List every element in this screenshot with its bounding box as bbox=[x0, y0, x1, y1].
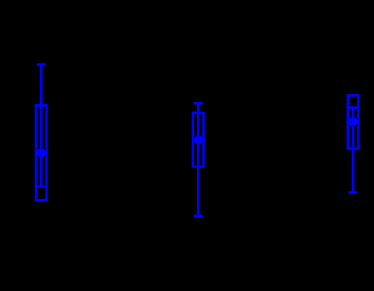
candlestick 1 box bbox=[36, 105, 47, 200]
candlestick 2 top whisker cap bbox=[194, 102, 203, 105]
candlestick 2 whisker line bbox=[197, 103, 200, 216]
candlestick 3 bottom whisker cap bbox=[349, 191, 358, 194]
candlestick 2 bottom whisker cap bbox=[194, 215, 203, 218]
candlestick 1 mean point bbox=[37, 148, 46, 157]
candlestick 1 top whisker cap bbox=[37, 63, 46, 66]
candlestick 3 mean point bbox=[349, 117, 358, 126]
candlestick 1 whisker line bbox=[40, 65, 43, 187]
candlestick 3 top whisker cap bbox=[349, 106, 358, 109]
candlestick 2 box bbox=[193, 113, 204, 167]
candlestick 3 whisker line bbox=[352, 108, 355, 193]
candlestick 3 box bbox=[348, 95, 359, 148]
candlestick 2 mean point bbox=[194, 135, 203, 144]
candlestick 1 bottom whisker cap bbox=[37, 185, 46, 188]
